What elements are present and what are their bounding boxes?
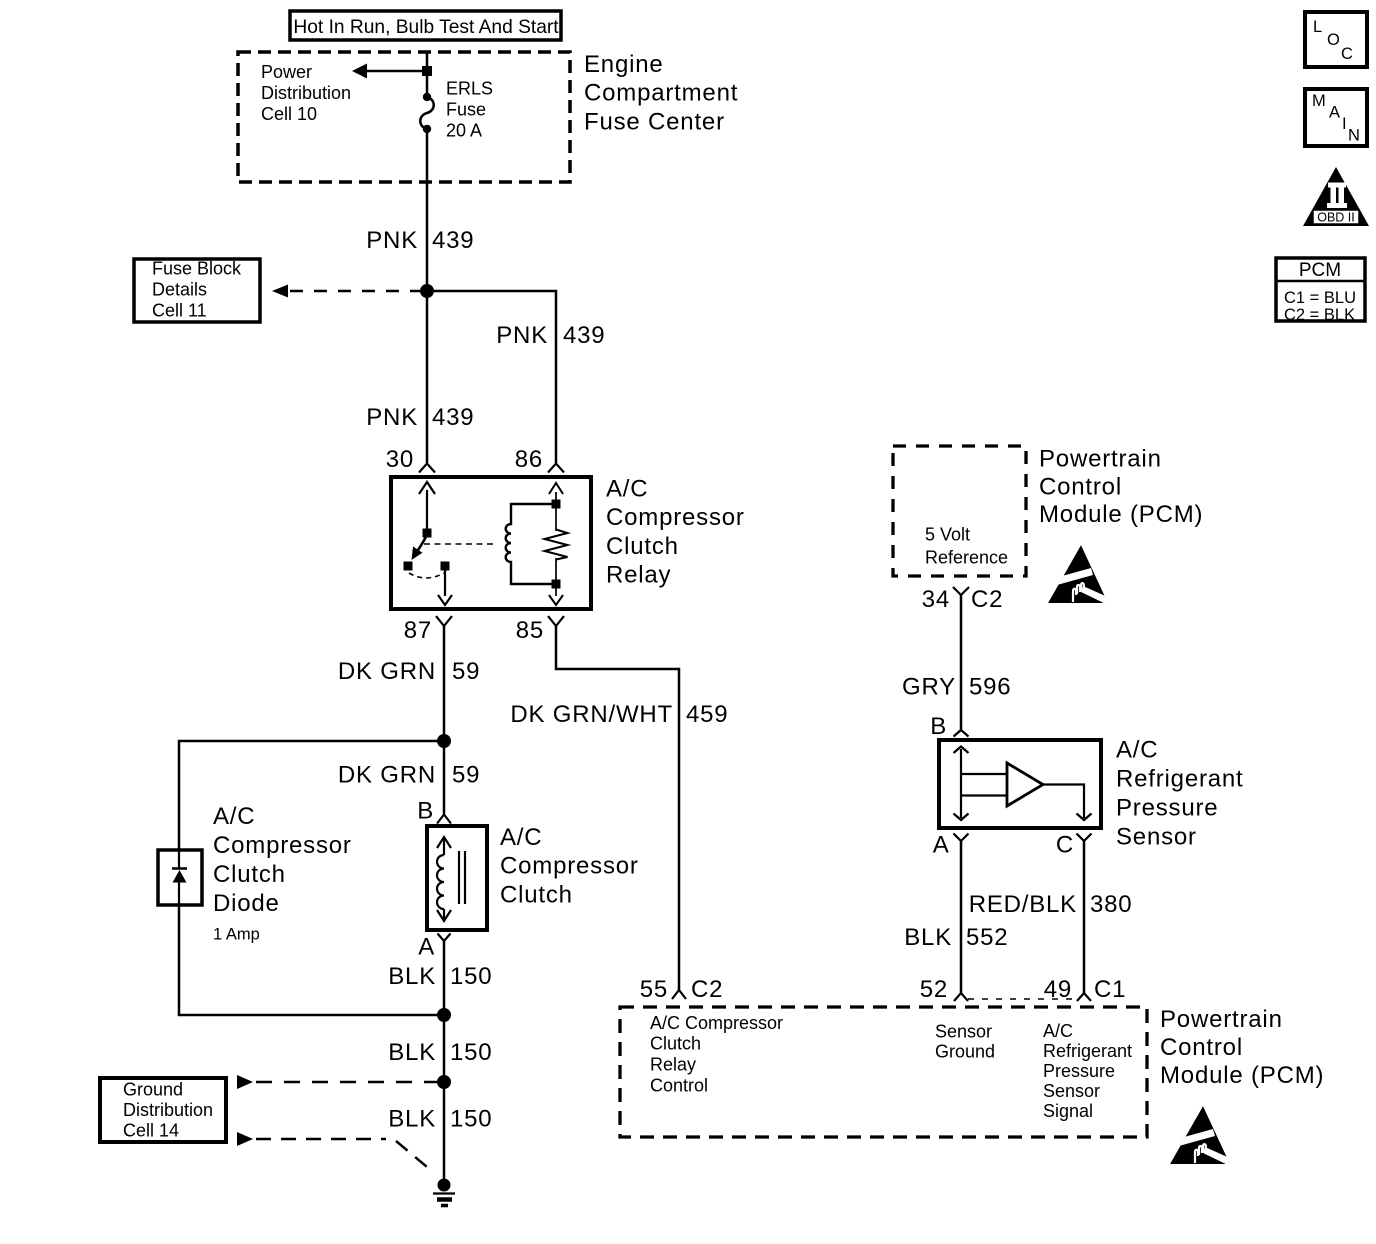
svg-text:30: 30	[386, 446, 414, 473]
svg-text:49: 49	[1044, 976, 1072, 1003]
svg-text:Control: Control	[650, 1076, 708, 1096]
svg-text:Relay: Relay	[650, 1055, 696, 1075]
svg-text:Control: Control	[1039, 474, 1122, 501]
svg-text:Cell 10: Cell 10	[261, 104, 317, 124]
svg-text:Module (PCM): Module (PCM)	[1160, 1062, 1324, 1089]
svg-text:Details: Details	[152, 280, 207, 300]
svg-text:Module (PCM): Module (PCM)	[1039, 501, 1203, 528]
svg-text:Control: Control	[1160, 1034, 1243, 1061]
svg-text:A/C: A/C	[213, 803, 255, 830]
svg-text:C: C	[1341, 45, 1353, 63]
svg-text:I: I	[1342, 115, 1347, 133]
svg-text:Clutch: Clutch	[213, 861, 286, 888]
svg-text:A: A	[933, 832, 950, 859]
svg-text:A: A	[1329, 104, 1340, 122]
svg-text:Compressor: Compressor	[606, 504, 745, 531]
svg-text:Signal: Signal	[1043, 1101, 1093, 1121]
svg-text:59: 59	[452, 762, 480, 789]
svg-text:Pressure: Pressure	[1116, 795, 1218, 822]
svg-text:Relay: Relay	[606, 562, 671, 589]
svg-text:Sensor: Sensor	[1116, 824, 1197, 851]
svg-text:Clutch: Clutch	[650, 1034, 701, 1054]
svg-text:M: M	[1312, 92, 1326, 110]
svg-text:Engine: Engine	[584, 51, 664, 78]
svg-text:PNK: PNK	[366, 227, 418, 254]
svg-text:Pressure: Pressure	[1043, 1061, 1115, 1081]
svg-text:380: 380	[1090, 891, 1132, 918]
svg-text:C2 = BLK: C2 = BLK	[1284, 306, 1355, 324]
svg-text:Refrigerant: Refrigerant	[1043, 1041, 1132, 1061]
svg-text:439: 439	[563, 322, 605, 349]
svg-text:Compressor: Compressor	[213, 832, 352, 859]
svg-text:1 Amp: 1 Amp	[213, 926, 260, 944]
svg-text:BLK: BLK	[904, 924, 952, 951]
svg-text:A/C: A/C	[1116, 737, 1158, 764]
svg-text:OBD II: OBD II	[1317, 211, 1355, 225]
svg-text:BLK: BLK	[388, 1039, 436, 1066]
svg-text:B: B	[417, 798, 434, 825]
svg-text:C2: C2	[971, 586, 1003, 613]
svg-text:86: 86	[515, 446, 543, 473]
svg-text:85: 85	[516, 617, 544, 644]
svg-text:RED/BLK: RED/BLK	[969, 891, 1077, 918]
svg-text:ERLS: ERLS	[446, 79, 493, 99]
svg-text:PNK: PNK	[366, 404, 418, 431]
svg-text:Distribution: Distribution	[123, 1100, 213, 1120]
svg-text:DK GRN/WHT: DK GRN/WHT	[510, 701, 673, 728]
svg-text:A/C: A/C	[1043, 1021, 1073, 1041]
svg-text:Cell 14: Cell 14	[123, 1121, 179, 1141]
svg-text:Hot In Run, Bulb Test And Star: Hot In Run, Bulb Test And Start	[293, 17, 559, 38]
svg-text:L: L	[1313, 18, 1322, 36]
svg-text:150: 150	[450, 963, 492, 990]
svg-text:Cell 11: Cell 11	[152, 301, 207, 321]
svg-text:GRY: GRY	[902, 674, 956, 701]
svg-text:BLK: BLK	[388, 1106, 436, 1133]
svg-text:Ground: Ground	[935, 1042, 995, 1062]
svg-text:439: 439	[432, 227, 474, 254]
svg-text:Reference: Reference	[925, 548, 1008, 568]
svg-text:BLK: BLK	[388, 963, 436, 990]
svg-text:Clutch: Clutch	[500, 882, 573, 909]
svg-text:552: 552	[966, 924, 1008, 951]
svg-text:Powertrain: Powertrain	[1039, 446, 1162, 473]
svg-text:Fuse Center: Fuse Center	[584, 109, 725, 136]
svg-text:52: 52	[920, 976, 948, 1003]
svg-text:Power: Power	[261, 62, 312, 82]
svg-text:Powertrain: Powertrain	[1160, 1006, 1283, 1033]
svg-text:A/C: A/C	[500, 824, 542, 851]
svg-text:C: C	[1056, 832, 1074, 859]
svg-text:DK GRN: DK GRN	[338, 658, 436, 685]
svg-text:Refrigerant: Refrigerant	[1116, 766, 1244, 793]
svg-text:A/C: A/C	[606, 476, 648, 503]
svg-text:A: A	[418, 934, 435, 961]
svg-text:C2: C2	[691, 976, 723, 1003]
svg-text:459: 459	[686, 701, 728, 728]
svg-text:150: 150	[450, 1106, 492, 1133]
svg-text:55: 55	[640, 976, 668, 1003]
svg-text:DK GRN: DK GRN	[338, 762, 436, 789]
svg-text:Fuse Block: Fuse Block	[152, 259, 242, 279]
svg-text:5 Volt: 5 Volt	[925, 525, 970, 545]
svg-text:Fuse: Fuse	[446, 100, 486, 120]
svg-text:Compartment: Compartment	[584, 80, 738, 107]
svg-text:Clutch: Clutch	[606, 533, 679, 560]
svg-text:PCM: PCM	[1299, 260, 1341, 281]
svg-text:C1 = BLU: C1 = BLU	[1284, 289, 1356, 307]
svg-text:Sensor: Sensor	[1043, 1081, 1100, 1101]
svg-text:C1: C1	[1094, 976, 1126, 1003]
svg-text:O: O	[1327, 31, 1340, 49]
svg-text:Compressor: Compressor	[500, 853, 639, 880]
svg-text:439: 439	[432, 404, 474, 431]
svg-text:B: B	[930, 713, 947, 740]
svg-text:596: 596	[969, 674, 1011, 701]
svg-text:Diode: Diode	[213, 890, 280, 917]
svg-text:N: N	[1348, 127, 1360, 145]
svg-text:59: 59	[452, 658, 480, 685]
svg-text:PNK: PNK	[496, 322, 548, 349]
svg-text:34: 34	[922, 586, 950, 613]
svg-text:87: 87	[404, 617, 432, 644]
svg-text:150: 150	[450, 1039, 492, 1066]
svg-text:20 A: 20 A	[446, 121, 482, 141]
svg-text:Sensor: Sensor	[935, 1022, 992, 1042]
svg-text:Ground: Ground	[123, 1080, 183, 1100]
svg-text:Distribution: Distribution	[261, 83, 351, 103]
svg-text:A/C Compressor: A/C Compressor	[650, 1013, 783, 1033]
